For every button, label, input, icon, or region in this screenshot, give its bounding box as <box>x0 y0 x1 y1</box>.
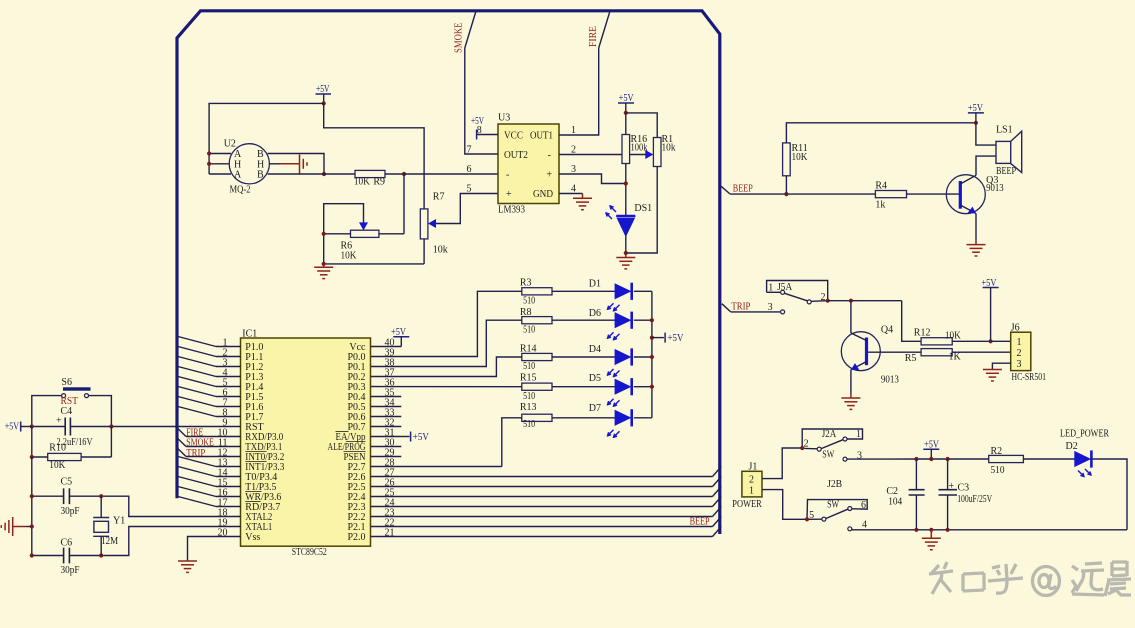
wire +5V stem <box>975 113 977 123</box>
emission arrows D1 <box>608 303 620 311</box>
wire J6 pin 3 to ground <box>992 363 1010 369</box>
wire U3 OUT1 to FIRE <box>559 48 599 135</box>
svg-text:D4: D4 <box>589 344 601 355</box>
junction <box>914 528 918 532</box>
junction <box>402 172 406 176</box>
wire to R9 <box>290 173 355 175</box>
power +5V (IC1 pin 40) <box>393 336 409 338</box>
wire R7 wiper to U3 pin 5 <box>436 194 499 224</box>
svg-text:OUT2: OUT2 <box>504 150 528 161</box>
wire R3 to D1 <box>552 290 615 292</box>
svg-text:R12: R12 <box>914 328 931 339</box>
svg-text:6: 6 <box>467 164 472 175</box>
pin stubs IC1 <box>216 347 401 537</box>
svg-text:C5: C5 <box>61 476 73 487</box>
svg-text:D5: D5 <box>589 373 601 384</box>
svg-text:+: + <box>546 170 552 181</box>
wire C5 right lead <box>69 495 101 497</box>
wire <box>188 537 217 562</box>
wire J1 pin2 to J2A <box>762 448 802 479</box>
wiper arrow R1 <box>645 150 653 159</box>
wire J2B pin5 lead <box>809 518 822 520</box>
svg-text:+5V: +5V <box>413 432 430 443</box>
resistor R13 <box>522 414 552 421</box>
junction <box>624 181 628 185</box>
junction <box>946 528 950 532</box>
junction <box>974 121 978 125</box>
wire R2 to D2 <box>1023 458 1074 460</box>
overlines on IC1 pin names <box>245 432 365 502</box>
op-amp U3 LM393 body <box>498 124 559 204</box>
wire +5V stem to J6 pin1 <box>990 288 992 342</box>
wire C4 left lead <box>32 426 65 428</box>
svg-text:6: 6 <box>861 500 866 511</box>
wire TRIP <box>186 456 216 458</box>
wire C3 bottom lead <box>947 495 949 530</box>
resistor R16 <box>622 135 630 164</box>
svg-text:SW: SW <box>827 499 839 510</box>
junction <box>207 162 211 166</box>
junction <box>929 457 933 461</box>
junction <box>914 457 918 461</box>
svg-text:10K: 10K <box>49 460 66 471</box>
wire right rail down <box>110 427 112 458</box>
junction <box>322 172 326 176</box>
capacitor C4 (polarized) <box>65 418 70 436</box>
svg-text:+5V: +5V <box>619 93 635 104</box>
wire BEEP to R4 <box>730 193 875 195</box>
ground J6 pin 3 <box>983 370 1002 381</box>
svg-text:2: 2 <box>821 292 826 303</box>
svg-text:R3: R3 <box>520 278 532 289</box>
wire +5V to R7 top <box>324 103 424 208</box>
ground below Q4 <box>841 398 860 409</box>
heater mark (red) on U2 H pin <box>280 155 307 174</box>
wire S6 left <box>32 396 62 427</box>
wire <box>111 426 216 428</box>
wire +5V to MQ-2 pin A <box>209 103 324 153</box>
wire ground to rail <box>25 526 32 528</box>
svg-text:510: 510 <box>991 465 1005 476</box>
wire C2 bottom lead <box>915 495 917 530</box>
junction <box>99 494 103 498</box>
resistor R2 body <box>989 455 1024 462</box>
wire C3 top lead <box>947 459 949 490</box>
resistor R12 body <box>921 338 952 345</box>
wire +5V stem pin40 <box>400 337 402 347</box>
microcontroller IC1 STC89C52 body <box>241 338 371 546</box>
ground power rail <box>922 538 941 549</box>
svg-text:3: 3 <box>768 302 773 313</box>
wire +5V to LS1 <box>976 123 996 145</box>
svg-text:U2: U2 <box>224 139 236 150</box>
emission arrows D6 <box>608 332 620 340</box>
wire R15 to D5 <box>552 386 615 388</box>
svg-text:HC-SR501: HC-SR501 <box>1012 372 1047 383</box>
svg-text:510: 510 <box>523 324 535 335</box>
wire R1 bottom to node <box>626 167 657 254</box>
wire U3 pin3 to node <box>559 174 626 184</box>
wire <box>371 386 522 388</box>
resistor R15 <box>522 383 552 390</box>
wire +5V to R1 <box>626 113 657 138</box>
resistor R5 body <box>921 349 952 356</box>
emission arrows D4 <box>608 369 620 377</box>
LED D6 <box>615 313 630 328</box>
emission arrows D2 <box>1078 469 1091 477</box>
svg-text:BEEP: BEEP <box>996 166 1016 177</box>
wire U3 OUT2 to R1 wiper <box>559 154 646 156</box>
svg-text:BEEP: BEEP <box>733 183 753 194</box>
resistor R4 body <box>875 191 906 198</box>
svg-text:510: 510 <box>523 391 535 402</box>
wire R16 bottom to DS1 <box>625 164 627 217</box>
svg-text:GND: GND <box>533 189 553 200</box>
svg-text:30pF: 30pF <box>61 506 80 517</box>
svg-text:J6: J6 <box>1011 323 1020 334</box>
svg-text:C4: C4 <box>61 406 73 417</box>
svg-text:R14: R14 <box>520 343 537 354</box>
speaker LS1 <box>996 141 1011 163</box>
wire U3 pin4 GND <box>559 193 583 195</box>
wire Q3 collector to LS1 <box>976 156 996 175</box>
trimmer R7 body <box>420 209 428 239</box>
wire J2B bracket <box>807 500 867 520</box>
LED DS1 <box>616 215 635 218</box>
wire R11 to +5V rail <box>786 123 976 143</box>
svg-text:+5V: +5V <box>471 116 485 127</box>
svg-text:A: A <box>234 170 242 181</box>
LED D1 <box>615 284 630 299</box>
junction <box>322 101 326 105</box>
svg-text:+5V: +5V <box>668 333 685 344</box>
svg-text:1: 1 <box>749 485 754 496</box>
resistor R3 <box>522 288 552 295</box>
wire R8 to D6 <box>552 319 615 321</box>
wire J5A bracket <box>767 281 828 301</box>
wire J5A pin1 lead <box>767 291 781 293</box>
wire +5V stem <box>323 94 325 103</box>
svg-text:510: 510 <box>523 419 535 430</box>
gas sensor U2 MQ-2 body <box>229 144 269 184</box>
lever J2A <box>821 440 843 449</box>
svg-text:10k: 10k <box>433 245 448 256</box>
svg-text:S6: S6 <box>61 377 72 388</box>
svg-text:510: 510 <box>523 295 535 306</box>
wire node to U3 pin 6 <box>404 173 499 175</box>
svg-text:+5V: +5V <box>5 421 20 432</box>
wire rail to +5V <box>652 337 664 339</box>
wire R11 bottom lead <box>785 176 787 194</box>
resistor R11 body <box>783 143 791 176</box>
wire down to R12 <box>902 301 921 342</box>
svg-text:R4: R4 <box>875 181 887 192</box>
junction <box>849 299 853 303</box>
wire J1 pin1 to J2B <box>762 490 807 520</box>
svg-text:D7: D7 <box>589 403 601 414</box>
wire R7 bottom lead <box>423 239 425 264</box>
wiper arrow R6 <box>359 222 368 230</box>
wire +5V to R16 <box>625 103 627 135</box>
svg-text:U3: U3 <box>498 113 510 124</box>
wire D7 cathode to rail <box>634 417 652 419</box>
svg-text:J2A: J2A <box>822 429 837 440</box>
junction <box>929 528 933 532</box>
svg-text:LED_POWER: LED_POWER <box>1060 428 1109 439</box>
svg-text:VCC: VCC <box>504 131 523 142</box>
wire ground rail under R6/R7 <box>324 263 424 265</box>
potentiometer R1 <box>653 138 661 167</box>
svg-text:R2: R2 <box>991 446 1003 457</box>
svg-text:9013: 9013 <box>986 183 1004 194</box>
ground below DS1 <box>616 258 635 269</box>
junction <box>784 192 788 196</box>
ground (left, rotated) <box>1 517 25 536</box>
wire R6 right lead <box>379 233 404 235</box>
wire J5A to R12 <box>828 300 902 302</box>
svg-text:100uF/25V: 100uF/25V <box>957 494 993 505</box>
junction <box>30 424 34 428</box>
wire D4 cathode to rail <box>634 356 652 358</box>
svg-text:+: + <box>506 189 512 200</box>
svg-text:4: 4 <box>862 520 867 531</box>
wire J5A pin2 lead <box>811 300 828 303</box>
svg-text:+5V: +5V <box>924 440 940 451</box>
wire R14 to D4 <box>552 356 615 358</box>
LED D7 <box>615 411 630 426</box>
switch S6 <box>63 387 91 390</box>
wire Q4 emitter to ground <box>850 370 852 395</box>
svg-text:12M: 12M <box>101 536 118 547</box>
junction <box>800 446 804 450</box>
LED D4 <box>615 350 630 365</box>
svg-text:LM393: LM393 <box>498 205 525 216</box>
LED D5 <box>615 379 630 394</box>
power +5V (R16/R1) <box>618 102 634 104</box>
junction <box>30 553 34 557</box>
trimmer R6 body <box>351 230 379 237</box>
emitter arrow Q3 <box>960 205 976 214</box>
wire C4 right lead <box>70 426 111 428</box>
junction <box>989 339 993 343</box>
resistor R10 body <box>48 453 81 460</box>
wire J2A pin3 to rail <box>847 458 916 460</box>
resistor R9 <box>355 170 385 177</box>
resistor R14 <box>522 353 552 360</box>
wire D6 cathode to rail <box>634 319 652 321</box>
svg-text:2: 2 <box>804 439 809 450</box>
sheet border (board outline) <box>177 11 720 534</box>
svg-text:10k: 10k <box>662 143 676 154</box>
ground below R6 <box>314 267 333 278</box>
svg-text:SW: SW <box>822 450 834 461</box>
junction <box>624 251 628 255</box>
svg-text:1k: 1k <box>875 200 885 211</box>
wire <box>371 291 522 356</box>
wire Y1 top lead <box>100 496 102 517</box>
wire C6 left lead <box>32 555 64 557</box>
wire <box>502 418 522 467</box>
wire R6 wiper loop <box>324 204 364 264</box>
power +5V (top left) <box>316 93 332 95</box>
wire C2 top lead <box>915 459 917 490</box>
wire left rail down <box>31 427 33 458</box>
junction <box>322 262 326 266</box>
wire pin31 to +5V <box>401 436 409 438</box>
wire R5 to J6 pin 2 <box>952 351 1011 353</box>
svg-text:5: 5 <box>809 510 814 521</box>
wire U3 pin8 <box>477 134 498 136</box>
svg-text:+5V: +5V <box>981 278 997 289</box>
emission arrows D7 <box>608 430 620 438</box>
svg-text:MQ-2: MQ-2 <box>230 185 251 196</box>
junction <box>650 355 654 359</box>
svg-text:5: 5 <box>467 183 472 194</box>
svg-text:+5V: +5V <box>391 327 407 338</box>
junction <box>946 457 950 461</box>
svg-text:-: - <box>506 170 509 181</box>
watermark 知乎 @远晨 <box>929 561 1131 596</box>
power +5V (U3 pin 8) <box>476 130 478 140</box>
svg-text:10K: 10K <box>341 251 358 262</box>
wire Q4 base to R5 <box>868 351 921 353</box>
junction <box>650 336 654 340</box>
svg-text:STC89C52: STC89C52 <box>292 547 327 558</box>
wire S6 right <box>89 396 112 427</box>
svg-text:POWER: POWER <box>732 499 762 510</box>
svg-text:P2.0: P2.0 <box>347 532 365 543</box>
junction <box>207 151 211 155</box>
ground U3 pin 4 <box>573 198 592 209</box>
junction <box>99 553 103 557</box>
junction <box>30 455 34 459</box>
svg-text:TRIP: TRIP <box>731 302 750 313</box>
svg-text:D1: D1 <box>589 278 601 289</box>
svg-text:1: 1 <box>1017 337 1022 348</box>
junction <box>624 111 628 115</box>
wire SMOKE to U3 pin 7 <box>465 48 498 154</box>
svg-text:J1: J1 <box>749 462 758 473</box>
svg-text:+: + <box>949 481 955 492</box>
svg-text:10K: 10K <box>945 330 962 341</box>
lever J5A <box>785 293 808 301</box>
svg-text:R13: R13 <box>520 402 537 413</box>
wire to Q4 collector <box>850 301 852 333</box>
wire SMOKE border jog <box>465 11 476 48</box>
svg-text:10K: 10K <box>354 177 371 188</box>
power +5V (J6) <box>983 287 999 289</box>
svg-text:IC1: IC1 <box>242 328 257 339</box>
wire U2 B pins loop <box>290 154 324 175</box>
wire SMOKE <box>186 446 216 448</box>
junction <box>650 385 654 389</box>
wire TRIP to J5A pin 3 <box>731 311 781 313</box>
wire C5 left lead <box>32 495 64 497</box>
wire <box>371 320 522 366</box>
wiper arrow R7 <box>428 219 436 228</box>
svg-text:2: 2 <box>1017 348 1022 359</box>
power +5V (left) <box>20 422 22 432</box>
svg-text:1: 1 <box>856 429 861 440</box>
svg-text:LS1: LS1 <box>996 125 1013 136</box>
wire U2 left pins common <box>208 154 210 175</box>
net label BEEP (right) <box>721 186 730 194</box>
wire <box>371 357 522 377</box>
wire DS1 to ground node <box>625 234 627 253</box>
power +5V (buzzer) <box>968 112 984 114</box>
wire bottom rail <box>852 529 1127 530</box>
svg-text:1: 1 <box>571 125 576 136</box>
svg-text:9013: 9013 <box>881 374 899 385</box>
svg-text:10K: 10K <box>792 152 809 163</box>
wire left rail to C6 <box>31 457 33 556</box>
wires P2.7-P2.0 to right border <box>371 467 722 537</box>
junction <box>826 299 830 303</box>
svg-text:R15: R15 <box>520 372 537 383</box>
wire D2 cathode loop <box>1092 459 1127 530</box>
svg-text:C3: C3 <box>958 483 970 494</box>
net label TRIP (right) <box>722 304 731 312</box>
svg-text:BEEP: BEEP <box>690 516 710 527</box>
resistor R8 <box>522 317 552 324</box>
wire R9 to node <box>385 173 404 175</box>
wire <box>651 291 653 418</box>
connector J6 HC-SR501 <box>1011 332 1031 370</box>
switch J5A <box>781 310 785 314</box>
svg-text:4: 4 <box>571 183 576 194</box>
svg-text:1K: 1K <box>949 351 962 362</box>
wire R10 right lead <box>81 456 111 458</box>
wire +5V stem <box>930 449 932 459</box>
wire FIRE <box>186 436 216 438</box>
wire <box>103 496 216 516</box>
junction <box>30 524 34 528</box>
svg-text:104: 104 <box>888 496 902 507</box>
svg-text:Vss: Vss <box>245 532 260 543</box>
svg-text:D6: D6 <box>589 308 601 319</box>
svg-text:Y1: Y1 <box>113 516 125 527</box>
slanted bus wires IC1 pins 1-8 <box>178 337 216 507</box>
svg-text:OUT1: OUT1 <box>530 131 553 142</box>
emission arrows DS1 <box>606 206 616 219</box>
svg-text:R5: R5 <box>905 353 917 364</box>
power +5V (power rail) <box>923 448 939 450</box>
svg-text:3: 3 <box>1017 359 1022 370</box>
svg-text:1: 1 <box>768 283 773 294</box>
wire R10 left lead <box>32 456 48 458</box>
wire D5 cathode to rail <box>634 386 652 388</box>
svg-text:DS1: DS1 <box>634 203 652 214</box>
svg-text:J2B: J2B <box>827 479 842 490</box>
svg-text:2: 2 <box>571 144 576 155</box>
svg-text:100k: 100k <box>631 143 648 154</box>
emission arrows D5 <box>608 399 620 407</box>
wire R6 left lead <box>324 233 351 235</box>
junction <box>650 318 654 322</box>
svg-text:3: 3 <box>571 164 576 175</box>
LED D2 <box>1075 452 1090 467</box>
svg-text:30pF: 30pF <box>61 565 80 576</box>
connector J1 POWER <box>742 471 762 497</box>
svg-text:R10: R10 <box>49 442 66 453</box>
junction <box>30 494 34 498</box>
svg-text:R9: R9 <box>373 177 385 188</box>
emitter arrow Q4 <box>851 362 867 370</box>
svg-text:510: 510 <box>523 361 535 372</box>
junction <box>109 424 113 428</box>
lever J2B <box>826 509 848 518</box>
junction <box>322 232 326 236</box>
